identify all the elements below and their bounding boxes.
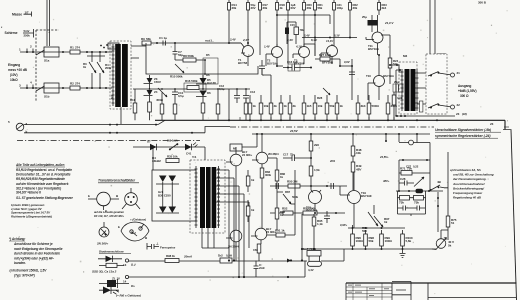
resistor R17a — [201, 103, 205, 113]
svg-text:(L›): (L›) — [131, 263, 136, 267]
svg-text:R53 290k: R53 290k — [303, 207, 316, 211]
node y186 dots — [310, 185, 328, 187]
svg-text:Drehschalter S1...S7 an d. Fro: Drehschalter S1...S7 an d. Frontplatte — [16, 173, 71, 177]
resistor R52 — [283, 211, 293, 215]
capacitor C13b — [259, 60, 265, 75]
svg-text:BA138: BA138 — [207, 81, 216, 85]
svg-text:Ausrichtersaufnahme!: Ausrichtersaufnahme! — [452, 182, 485, 186]
node junction loop — [204, 59, 206, 75]
wire screen pair to Masse — [47, 0, 50, 46]
wire bridge bottom — [398, 198, 426, 214]
resistor R72 — [400, 196, 410, 201]
svg-text:30k: 30k — [353, 6, 358, 10]
transistor T14 — [230, 154, 242, 166]
resistor R91 — [276, 233, 285, 237]
svg-text:M1: M1 — [110, 95, 114, 99]
zener Z4 — [147, 90, 153, 96]
svg-text:4,1V: 4,1V — [295, 45, 303, 49]
node Tr1 label — [192, 155, 197, 159]
svg-text:M: M — [233, 147, 236, 151]
diode D6 — [200, 91, 207, 97]
svg-text:BCY58: BCY58 — [238, 61, 247, 65]
svg-text:30k: 30k — [263, 6, 268, 10]
wire bottom lower — [129, 261, 305, 278]
relay box M2 — [230, 144, 242, 151]
resistor R1 — [70, 50, 80, 54]
svg-text:56k: 56k — [146, 37, 151, 41]
resistor R84 — [246, 176, 250, 186]
node voltage labels lower — [329, 155, 390, 227]
svg-text:Si1 0,1A: Si1 0,1A — [167, 139, 179, 143]
svg-text:(10V): (10V) — [10, 73, 18, 77]
divider dash-dot far right — [503, 129, 512, 131]
capacitor C15 — [287, 3, 290, 11]
node note2 text block — [11, 203, 52, 218]
title block signature — [396, 289, 406, 291]
potentiometer R4 — [97, 62, 104, 73]
wire stage link y186 — [270, 185, 347, 187]
svg-text:(= Riß s Gehäuse): (= Riß s Gehäuse) — [116, 294, 141, 298]
ground symbol — [400, 249, 406, 258]
node Eingang label — [8, 63, 28, 82]
resistor R86 — [275, 170, 279, 181]
node M3 label — [403, 54, 407, 58]
transformer M3 primary winding — [401, 69, 404, 111]
transistor T1 — [243, 46, 254, 57]
diode block D5 box — [203, 58, 218, 84]
resistor R41 — [356, 103, 360, 114]
node legend caption — [94, 210, 124, 218]
svg-text:R1: R1 — [70, 46, 74, 50]
resistor R27 — [320, 57, 330, 61]
svg-text:S1- S7 gezeichnete Stellung:Be: S1- S7 gezeichnete Stellung:Begrenzer — [16, 196, 74, 200]
node Gr1 label — [158, 190, 171, 198]
svg-text:300 B: 300 B — [478, 1, 487, 5]
arrow marker bottom — [287, 259, 291, 263]
node output couple dots — [396, 64, 401, 71]
rectifier Gr1 box — [152, 170, 196, 221]
terminal 14 — [125, 275, 128, 278]
potentiometer R13 — [158, 88, 167, 104]
node Transistorenschaltbilder heading — [98, 179, 136, 183]
transistor T16 — [230, 230, 242, 242]
svg-text:R28: R28 — [317, 96, 323, 100]
transformer Tr1 core — [200, 167, 216, 228]
symbol transistor small — [99, 227, 109, 237]
svg-text:1k: 1k — [83, 65, 87, 69]
svg-text:DF 119, 117, 128 2N 360+: DF 119, 117, 128 2N 360+ — [94, 214, 124, 218]
node bus junctions — [228, 119, 438, 121]
svg-text:Dr›: Dr› — [131, 284, 135, 288]
wire ground upper — [24, 124, 158, 126]
svg-text:R27 100k: R27 100k — [319, 53, 332, 57]
svg-text:2mF: 2mF — [259, 266, 265, 270]
svg-text:BSY19A: BSY19A — [267, 62, 279, 66]
svg-text:1k: 1k — [251, 178, 255, 182]
transistor T20 — [436, 239, 446, 249]
wire R8 drop — [204, 60, 206, 74]
wire input row2 — [20, 87, 112, 89]
svg-text:73k: 73k — [399, 201, 404, 205]
resistor R15 — [160, 104, 164, 114]
svg-text:Brückenkillereingang!: Brückenkillereingang! — [453, 186, 484, 190]
svg-text:500Ω: 500Ω — [372, 104, 380, 108]
svg-text:0,22: 0,22 — [413, 165, 419, 169]
svg-text:100Ω: 100Ω — [356, 239, 364, 243]
resistor R73 — [414, 196, 424, 201]
node quad top dots — [352, 227, 383, 229]
symbol diode — [98, 256, 122, 262]
potentiometer R3 — [89, 62, 96, 73]
svg-text:30V: 30V — [251, 6, 256, 10]
svg-text:R98 1k: R98 1k — [166, 254, 175, 258]
wire output ground — [395, 115, 455, 117]
svg-text:0,5H: 0,5H — [226, 254, 232, 258]
wire T20 top — [441, 230, 448, 239]
resistor R33 — [279, 103, 283, 114]
wire T15 emitter right — [268, 158, 277, 230]
diode D8 — [185, 144, 192, 150]
svg-text:D6: D6 — [207, 91, 211, 95]
node M1 label — [110, 95, 114, 99]
diode Gr1a — [159, 176, 167, 183]
symbol transistor case A — [97, 192, 111, 206]
svg-text:R16 500k: R16 500k — [185, 79, 198, 83]
resistor R32 — [269, 103, 273, 114]
svg-text:1,5k: 1,5k — [314, 168, 320, 172]
wire emitter rail y37.5 — [302, 37, 357, 39]
resistor R83 — [260, 168, 264, 178]
node 23 label — [456, 112, 494, 126]
node T-row dots — [228, 42, 391, 69]
node bus tick marks — [240, 117, 394, 120]
svg-text:200k: 200k — [105, 66, 112, 70]
wire shield dash horizontal — [36, 29, 59, 31]
resistor R42 — [367, 103, 371, 114]
svg-text:Regelumfang 40 dB: Regelumfang 40 dB — [453, 196, 482, 200]
symbol resistor legend — [99, 265, 124, 267]
capacitor C23 — [349, 66, 355, 75]
svg-text:mit (+)(304) oder (+)(32) HF-: mit (+)(304) oder (+)(32) HF- — [14, 256, 54, 260]
svg-text:Frequenzgang linear: Frequenzgang linear — [453, 191, 483, 195]
wire heading underline — [98, 182, 139, 184]
svg-text:C17: C17 — [283, 153, 289, 157]
svg-text:fe 2: fe 2 — [131, 231, 136, 235]
svg-text:C41: C41 — [186, 152, 192, 156]
svg-text:E: E — [88, 194, 90, 198]
capacitor C15b — [285, 28, 289, 35]
resistor R85 — [246, 206, 250, 216]
capacitor C10 — [172, 89, 178, 104]
wire Masse fraction bar — [24, 12, 32, 17]
wire into bridge — [150, 147, 153, 170]
capacitor C20 — [324, 211, 330, 223]
divider dash-dot left — [17, 140, 200, 142]
transformer Tr1 primary winding — [195, 166, 198, 228]
svg-text:5: 5 — [8, 120, 10, 124]
wire switch box tick — [437, 53, 446, 55]
potentiometer R87 — [283, 194, 291, 204]
transformer Tr1 outline — [190, 160, 225, 233]
svg-text:23: 23 — [456, 112, 460, 116]
wire harness v4 — [216, 194, 244, 277]
capacitor C14 — [247, 3, 250, 11]
svg-text:BSY19II: BSY19II — [361, 194, 372, 198]
transistor T2 — [272, 47, 283, 58]
terminal input 1 — [27, 49, 33, 53]
svg-text:S1b: S1b — [44, 95, 50, 99]
resistor R11 — [133, 103, 137, 113]
svg-text:auf die Lötseite gesehen: auf die Lötseite gesehen — [94, 210, 124, 214]
node Fernspeise label — [156, 242, 176, 250]
svg-text:500: 500 — [362, 229, 367, 233]
node note3 text block — [9, 237, 63, 265]
node 24,5V label — [289, 129, 299, 133]
svg-text:und 5B, 4B zur Umschaltung: und 5B, 4B zur Umschaltung — [453, 173, 494, 177]
transistor T15 — [256, 152, 268, 164]
symbol LED diode — [103, 287, 111, 294]
node rail labels — [303, 33, 341, 37]
node rail dots — [149, 88, 247, 90]
transistor T11 — [372, 32, 383, 43]
zener Z3 — [147, 78, 153, 84]
wire bridge lower loop — [398, 191, 426, 198]
svg-text:22: 22 — [457, 103, 461, 107]
svg-text:274: 274 — [75, 82, 80, 86]
title block frame — [346, 282, 517, 284]
svg-text:Dr2: Dr2 — [218, 254, 223, 258]
svg-text:1,1k: 1,1k — [317, 222, 323, 226]
node junctions row1 — [62, 51, 107, 53]
resistor R38 — [325, 103, 329, 114]
svg-text:1k: 1k — [384, 220, 388, 224]
wire rail y89 — [133, 88, 250, 90]
wire M1 secondary out — [131, 46, 146, 58]
svg-text:Masse: Masse — [12, 13, 22, 17]
svg-text:1k: 1k — [251, 208, 255, 212]
capacitor C12 — [234, 89, 240, 103]
wire into transformer — [390, 65, 402, 116]
svg-text:23: 23 — [490, 122, 494, 126]
svg-text:14: 14 — [123, 280, 127, 284]
capacitor C22 electrolytic — [368, 20, 378, 26]
wire Schirme fraction bar — [23, 29, 34, 38]
capacitor C18 — [276, 183, 279, 189]
wire collector rail y15 — [277, 15, 330, 24]
svg-text:S1a: S1a — [44, 59, 50, 63]
svg-text:C27: C27 — [406, 165, 411, 169]
node lower rail dots — [256, 133, 418, 135]
transistor T19 — [348, 191, 361, 204]
capacitor C1 — [163, 41, 166, 46]
resistor R9 — [142, 41, 151, 45]
node bottom wire dots — [228, 259, 303, 278]
transformer M3 outline — [399, 62, 417, 114]
switch S1a — [36, 50, 45, 55]
transistor T17 — [255, 228, 267, 240]
wire T3 collector rail — [304, 44, 315, 56]
resistor R14t — [228, 3, 231, 11]
wire y66 link left — [262, 69, 271, 96]
node label C27 — [406, 165, 419, 169]
svg-text:3: 3 — [19, 84, 21, 88]
svg-text:56k: 56k — [369, 239, 374, 243]
svg-text:75n: 75n — [290, 153, 295, 157]
svg-text:2k4: 2k4 — [382, 6, 387, 10]
wire switch common drop — [437, 192, 439, 232]
resistor R71 — [401, 171, 412, 176]
wire stage link y213 — [270, 212, 345, 214]
wire input row1 — [20, 51, 112, 53]
resistor R16 box — [184, 83, 206, 92]
node D4 label — [152, 156, 161, 163]
wire feed x399 — [398, 134, 400, 142]
wire feedback top — [151, 42, 241, 44]
capacitor C44 — [254, 261, 259, 278]
resistor R46 — [309, 141, 313, 151]
svg-text:250k: 250k — [24, 34, 31, 38]
svg-text:ZL 10: ZL 10 — [111, 277, 120, 281]
resistor R96a — [351, 234, 355, 246]
resistor R18 — [276, 3, 279, 11]
svg-text:150V: 150V — [154, 80, 161, 84]
svg-text:3k3: 3k3 — [361, 104, 366, 108]
svg-text:D5: D5 — [206, 53, 210, 57]
svg-text:21,0 V: 21,0 V — [384, 21, 394, 25]
wire Tr1 leads down — [202, 228, 229, 248]
resistor R35 — [166, 159, 179, 163]
wire top row stubs — [229, 0, 379, 3]
resistor R14 — [173, 104, 177, 114]
resistor R50 — [288, 184, 300, 188]
resistor R12 — [148, 102, 152, 112]
svg-text:nach Erdgebung der Stromquelle: nach Erdgebung der Stromquelle — [14, 247, 63, 251]
node Diodenanschluesse heading — [99, 250, 124, 254]
node junctions row2 — [62, 87, 107, 89]
wire bus right tail — [504, 126, 509, 128]
svg-text:300 Ω: 300 Ω — [460, 94, 469, 98]
svg-text:R35 10k: R35 10k — [167, 155, 178, 159]
svg-text:2N 360+: 2N 360+ — [96, 242, 108, 246]
resistor R21 — [314, 3, 317, 11]
resistor R90 — [257, 244, 261, 253]
node y213 dots — [314, 212, 337, 214]
switch S7b — [428, 104, 450, 109]
svg-text:25μ: 25μ — [394, 80, 399, 84]
svg-text:5mV: 5mV — [24, 29, 30, 33]
svg-text:300k: 300k — [265, 173, 271, 177]
wire M1 bottom to bus — [120, 107, 122, 124]
resistor R99 — [380, 234, 384, 246]
node feedback dot — [156, 42, 176, 44]
svg-text:45V: 45V — [355, 168, 362, 172]
title block columns — [353, 283, 382, 300]
inductor Dr2 — [220, 258, 232, 263]
node Schirme label — [1, 26, 30, 38]
resistor R55 — [294, 27, 299, 35]
svg-text:0,1μ: 0,1μ — [219, 87, 225, 91]
svg-text:R87: R87 — [285, 190, 290, 194]
node bias dots — [313, 248, 404, 250]
potentiometer R70 — [368, 205, 378, 226]
resistor R31 — [259, 103, 263, 114]
svg-text:Schirme: Schirme — [5, 31, 18, 35]
svg-text:E: E — [118, 225, 120, 229]
transistor T3 — [299, 47, 310, 58]
svg-text:m.d.L.: m.d.L. — [205, 39, 214, 43]
sheet border right — [511, 130, 517, 300]
svg-text:D7: D7 — [147, 140, 151, 144]
node SSD label — [92, 270, 117, 274]
svg-text:274: 274 — [75, 46, 80, 50]
title block micro text — [348, 285, 389, 296]
svg-text:Transistorenschaltbilder: Transistorenschaltbilder — [98, 179, 136, 183]
resistor R96 pill — [308, 261, 322, 266]
svg-text:M3: M3 — [403, 54, 407, 58]
terminal Fernspeise — [147, 243, 151, 250]
wire bias rail — [302, 248, 436, 250]
fuse Si1 — [169, 144, 178, 151]
svg-text:450Ω: 450Ω — [156, 98, 164, 102]
resistor R20 — [303, 3, 306, 11]
svg-text:70k: 70k — [300, 28, 305, 32]
svg-text:R71: R71 — [400, 167, 406, 171]
svg-text:B: B — [116, 194, 119, 198]
wire note3 underline — [9, 240, 25, 242]
title block bottom — [392, 295, 517, 298]
resistor R95 — [312, 217, 316, 226]
transformer M1 primary winding — [112, 44, 115, 106]
wire mid links — [340, 59, 352, 100]
resistor R24 — [388, 58, 392, 68]
resistor R23 — [378, 3, 381, 11]
svg-text:5k: 5k — [448, 244, 452, 248]
svg-text:5,6k: 5,6k — [406, 239, 412, 243]
svg-text:Tr1: Tr1 — [192, 155, 197, 159]
resistor R8 — [175, 59, 206, 61]
divider dash-dot right — [230, 126, 434, 128]
wire x386 stub — [385, 134, 387, 141]
svg-text:300k: 300k — [391, 104, 398, 108]
svg-text:6,3V: 6,3V — [334, 33, 341, 37]
wire T2 emitter link — [277, 65, 283, 67]
wire attenuator bottoms — [92, 73, 100, 88]
capacitor C13 — [243, 89, 249, 103]
svg-text:1k: 1k — [280, 175, 283, 179]
transistor T18 — [309, 191, 322, 204]
wire ground lower — [24, 127, 230, 133]
svg-text:+ (Gehäuse): + (Gehäuse) — [130, 218, 146, 222]
resistor R75 — [446, 216, 450, 227]
transformer Tr1 secondary winding — [217, 166, 220, 228]
svg-text:R3,R10 Regelwiderst. an d. Fro: R3,R10 Regelwiderst. an d. Frontplatte — [16, 168, 72, 172]
wire note1 underline — [16, 166, 65, 168]
capacitor C17 — [283, 155, 311, 161]
svg-text:mess +20 dB: mess +20 dB — [8, 68, 28, 72]
capacitor C24 electrolytic — [393, 84, 403, 92]
wire x417 stub — [416, 134, 418, 143]
terminal chassis — [16, 123, 24, 131]
node ZL10 label — [111, 277, 120, 281]
capacitor C16 — [288, 64, 300, 71]
svg-text:R10 500k: R10 500k — [170, 75, 183, 79]
svg-text:SSD 3Ω, Ca 13a 2: SSD 3Ω, Ca 13a 2 — [92, 270, 117, 274]
resistor R34 — [288, 103, 292, 114]
svg-text:6,3V: 6,3V — [311, 38, 318, 42]
svg-text:(Hf): (Hf) — [462, 112, 467, 116]
svg-text:R8 560k: R8 560k — [183, 54, 194, 58]
svg-text:(Typ: 970×34*): (Typ: 970×34*) — [14, 273, 35, 277]
